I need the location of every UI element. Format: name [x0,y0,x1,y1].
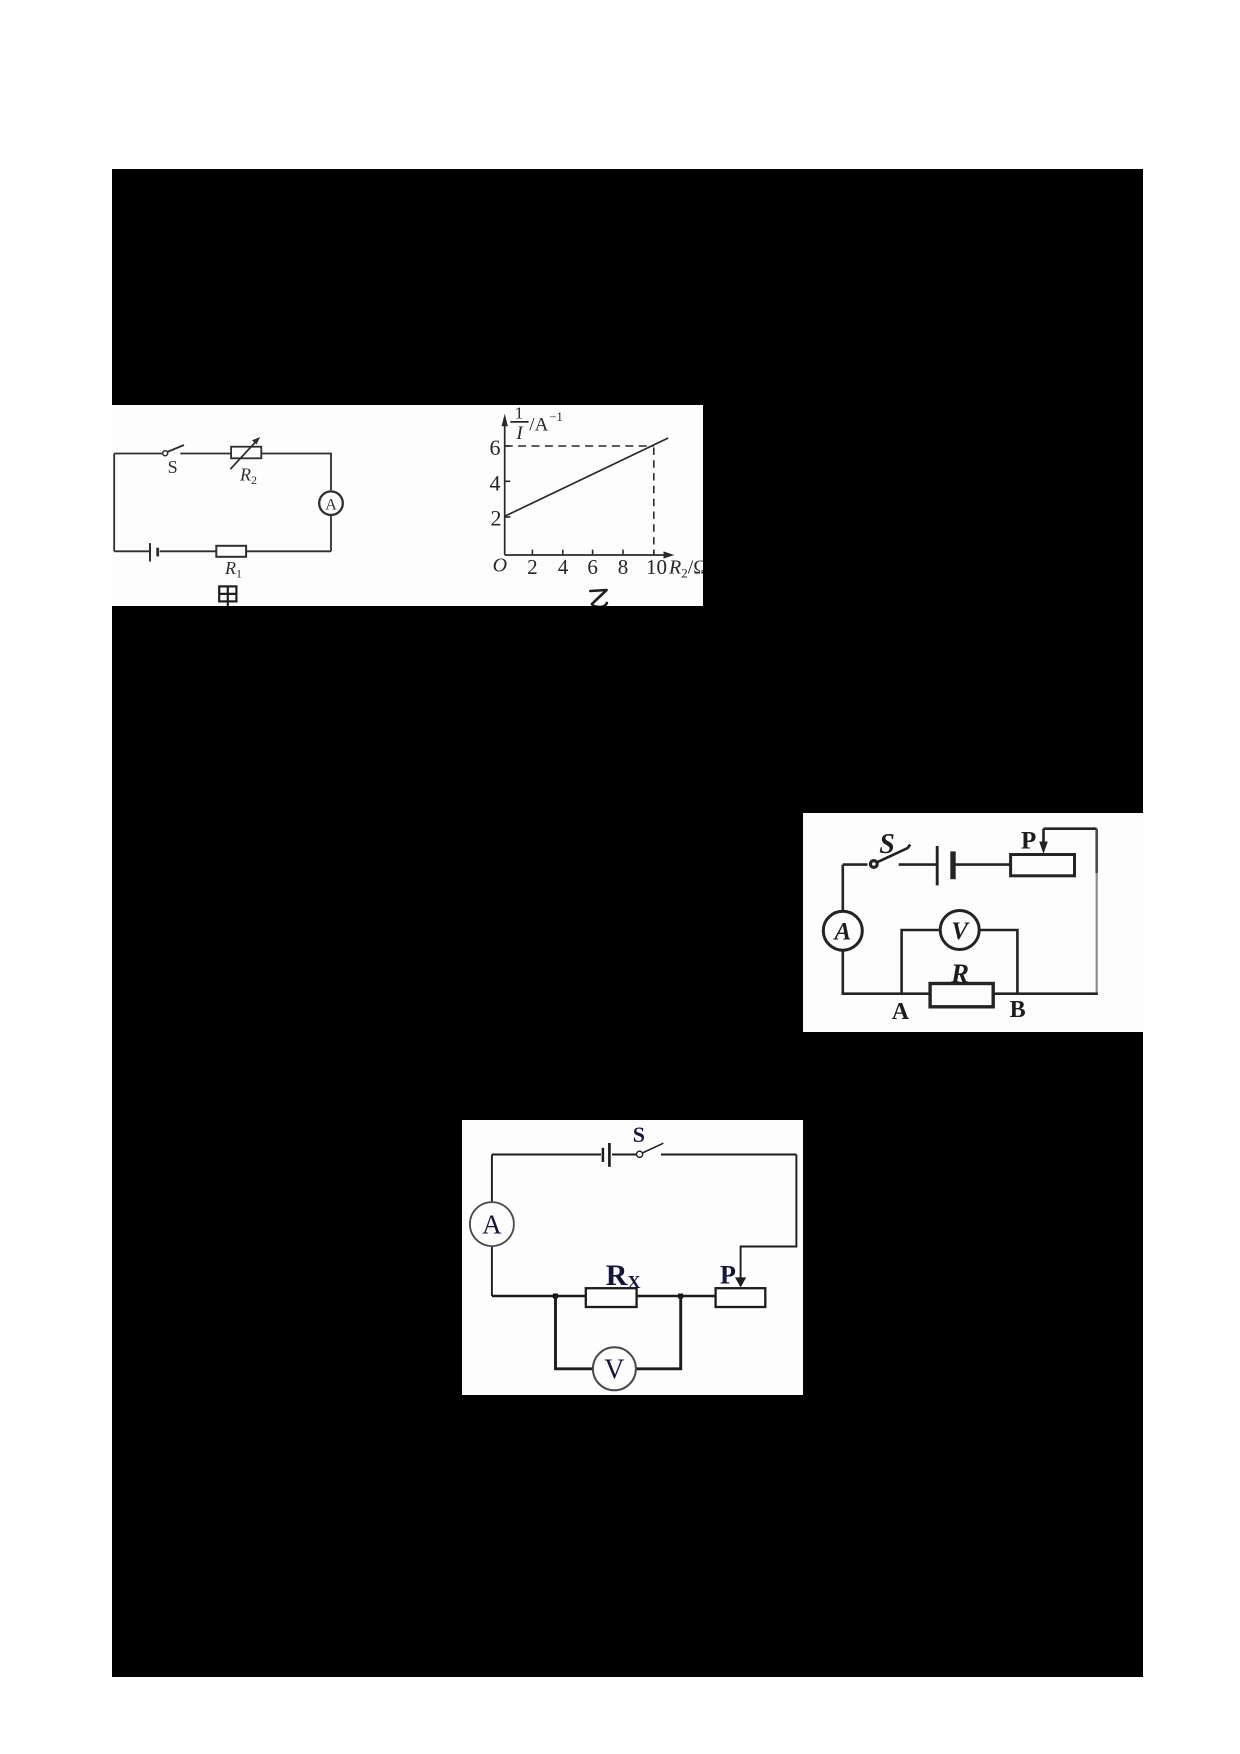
voltmeter V [940,911,979,950]
wire left vertical lower [841,950,844,994]
junction node left [553,1294,558,1299]
svg-text:V: V [951,918,970,945]
wire switch to battery [899,863,937,866]
svg-text:B: B [1010,997,1026,1023]
rheostat slider arrow [1042,829,1045,843]
svg-text:−1: −1 [549,410,562,424]
wire voltmeter branch right [636,1296,681,1369]
wire battery to switch [612,1154,637,1156]
switch S [637,1151,643,1157]
wire voltmeter branch right [979,930,1017,994]
wire bottom middle segment [160,550,217,552]
wire top left segment [492,1154,601,1156]
svg-text:S: S [168,457,178,477]
wire left vertical [113,454,115,552]
rheostat R2 arrow [230,441,256,469]
wire left vertical upper [841,865,844,913]
graph data line [505,438,669,516]
battery cell [602,1148,605,1162]
battery cell [936,846,939,885]
wire voltmeter branch left [902,930,941,994]
wire left vertical lower [491,1246,493,1296]
wire switch to right corner [661,1154,796,1156]
label 乙 (drawn glyph) [590,590,607,607]
y tick marks [505,445,511,447]
panel 3: circuit with Rx and rheostat P [462,1120,803,1395]
svg-text:R: R [950,959,969,989]
wire bottom [842,992,1098,995]
svg-text:O: O [493,555,507,577]
x tick marks [505,446,654,555]
x axis arrowhead [664,551,675,558]
wire right vertical [1095,829,1098,873]
wire slider top [1044,827,1097,830]
rheostat box [1011,855,1075,876]
svg-text:6: 6 [587,555,598,579]
svg-text:2: 2 [491,506,502,531]
svg-text:S: S [879,829,895,860]
resistor R1 box [216,546,246,557]
rheostat box [716,1288,766,1307]
svg-text:8: 8 [618,555,629,579]
label 甲 (drawn glyph) [219,586,236,606]
black background block [112,169,1143,1677]
svg-text:A: A [482,1210,502,1240]
dashed guide at y=6 [505,445,654,447]
svg-text:P: P [1021,828,1036,855]
svg-text:6: 6 [490,435,501,460]
svg-text:A: A [832,919,851,946]
svg-text:RX: RX [606,1259,641,1292]
svg-text:1: 1 [515,405,524,422]
wire top middle segment [180,453,231,455]
wire bottom right segment [246,550,331,552]
rheostat slider arrowhead [735,1277,746,1287]
svg-text:V: V [604,1355,624,1386]
y axis arrowhead [502,414,508,427]
panel 2: circuit with rheostat P and resistor R between A and B [803,813,1143,1032]
svg-text:2: 2 [527,555,538,579]
svg-text:10: 10 [646,555,667,579]
wire top right segment to corner and down [261,454,331,491]
svg-text:R1: R1 [224,558,242,581]
switch S [163,451,168,456]
wire top left segment [114,453,162,455]
svg-text:R2: R2 [239,465,257,488]
ammeter A1 [319,491,343,515]
switch S [870,861,877,868]
ammeter A [470,1202,514,1246]
wire bottom main [492,1295,716,1298]
svg-text:I: I [515,423,524,444]
svg-text:4: 4 [558,555,569,579]
panel 1: circuit 甲 and graph 乙 [112,405,703,606]
svg-text:/A: /A [529,415,548,436]
x axis [505,554,666,556]
battery cell [149,543,151,561]
wire top left segment [843,863,868,866]
dashed guide at x=10 [653,448,655,556]
resistor Rx box [586,1288,637,1307]
wire battery to rheostat [955,863,1011,866]
svg-text:P: P [720,1261,736,1290]
wire voltmeter branch left [556,1296,594,1369]
graph axes [505,418,666,555]
svg-text:4: 4 [490,471,501,496]
svg-text:A: A [892,999,910,1025]
wire ammeter to bottom corner [330,515,332,551]
svg-text:R2/Ω: R2/Ω [668,556,703,580]
y axis [504,418,506,555]
wire bottom left segment [114,550,149,552]
rheostat R2 box [231,447,261,459]
wire right vertical and step to slider [741,1155,797,1279]
svg-text:A: A [325,496,337,513]
junction node right [678,1294,683,1299]
svg-text:S: S [633,1122,645,1147]
wire left vertical upper [491,1155,493,1203]
ammeter A [823,911,862,950]
voltmeter V [593,1347,636,1390]
resistor R box [930,984,993,1007]
